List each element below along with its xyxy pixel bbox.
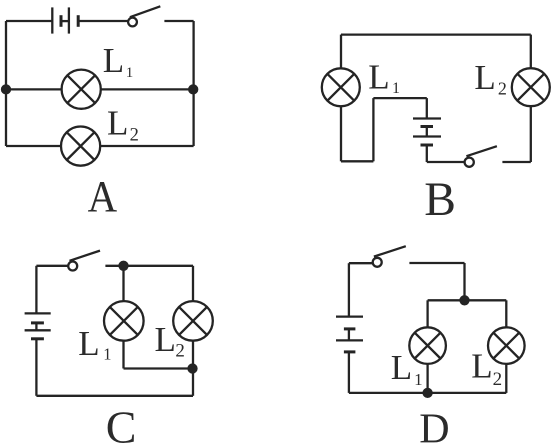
svg-text:L: L — [155, 320, 176, 359]
wire D: top-left to switch — [349, 262, 373, 264]
lamp L2 (C) — [173, 301, 213, 341]
svg-text:1: 1 — [103, 345, 111, 364]
svg-text:L: L — [78, 324, 99, 363]
wire B: top horizontal — [341, 33, 531, 35]
wire C: bottom horizontal — [36, 395, 193, 397]
wire D: L2 lead down — [505, 300, 507, 327]
wire D: L1 lead down — [426, 300, 428, 327]
wire B: left vertical lower from L1 — [340, 106, 342, 161]
switch (B): pivot circle and open arm — [465, 146, 497, 167]
svg-text:2: 2 — [175, 340, 185, 361]
svg-text:L: L — [103, 41, 124, 80]
wire B: bottom-left short horizontal — [341, 160, 373, 162]
svg-text:L: L — [474, 58, 495, 97]
wire C: right vertical lower — [192, 341, 194, 396]
lamp L1 (A) — [62, 70, 101, 109]
svg-text:1: 1 — [414, 370, 423, 389]
wire D: switch to top-right corner — [409, 262, 464, 264]
svg-text:L: L — [107, 103, 128, 142]
wire A: right vertical — [192, 21, 194, 146]
wire C: top-left to switch — [36, 265, 68, 267]
wire C: switch to top-right corner — [105, 265, 193, 267]
wire A: switch to top-right corner — [164, 20, 193, 22]
battery (C), two cells vertical — [25, 313, 51, 338]
wire C: right vertical upper — [192, 266, 194, 301]
junction node D-bottom — [424, 389, 432, 397]
wire C: L1 branch vertical lower — [122, 341, 124, 369]
wire A: middle branch left of L1 — [6, 88, 62, 90]
wire D: bottom horizontal — [349, 392, 506, 394]
svg-text:A: A — [88, 172, 118, 221]
wire B: inner horizontal to battery — [373, 97, 426, 99]
svg-text:1: 1 — [392, 80, 400, 97]
wire A: bottom branch right of L2 — [100, 145, 194, 147]
svg-text:2: 2 — [498, 78, 507, 98]
lamp L1 (B) — [322, 68, 360, 106]
wire D: left vertical upper (battery top lead) — [348, 263, 350, 316]
svg-text:B: B — [424, 174, 456, 226]
wire A: battery to switch — [78, 20, 128, 22]
wire C: left vertical upper (battery top lead) — [35, 266, 37, 314]
svg-text:1: 1 — [126, 65, 134, 81]
wire D: right vertical upper to branch node — [463, 263, 465, 300]
wire C: left vertical lower (battery bottom lead) — [35, 339, 37, 396]
svg-text:D: D — [419, 407, 449, 443]
lamp L1 (C) — [104, 301, 144, 341]
wire C: L1 bottom horizontal to node — [124, 367, 193, 369]
switch (D): pivot circle and open arm — [373, 246, 406, 267]
wire B: inner vertical up — [372, 98, 374, 161]
wire B: battery bottom lead — [426, 145, 428, 162]
junction node A-right — [189, 85, 197, 93]
lamp L1 (D) — [409, 327, 446, 364]
wire A: top-left segment to battery — [6, 20, 52, 22]
wire B: right vertical lower — [530, 106, 532, 162]
lamp L2 (B) — [512, 68, 550, 106]
wire A: left vertical — [5, 21, 7, 146]
junction node D-top — [461, 296, 469, 304]
wire B: battery top lead — [426, 98, 428, 118]
svg-text:L: L — [391, 348, 412, 387]
wire D: L2 lower lead — [505, 364, 507, 393]
wire D: L1 lower lead — [426, 364, 428, 393]
lamp L2 (A) — [61, 127, 100, 166]
wire A: bottom branch left of L2 — [6, 145, 61, 147]
wire D: left vertical lower (battery bottom lead) — [348, 352, 350, 393]
battery (A), two cells horizontal — [52, 7, 78, 33]
junction node C-bottom-right — [189, 365, 197, 373]
svg-text:L: L — [368, 57, 389, 96]
wire C: L1 branch vertical upper — [122, 266, 124, 301]
battery (D), two cells vertical — [336, 317, 363, 352]
switch (C): pivot circle and open arm — [68, 251, 100, 271]
svg-text:2: 2 — [493, 369, 503, 390]
svg-text:C: C — [106, 402, 137, 443]
switch (A): pivot circle and open arm — [128, 6, 160, 26]
junction node A-left — [2, 85, 10, 93]
svg-text:L: L — [471, 347, 492, 386]
battery (B), two cells vertical — [413, 119, 441, 146]
wire A: middle branch right of L1 — [101, 88, 194, 90]
wire B: left vertical upper into L1 — [340, 35, 342, 69]
wire B: right vertical upper — [530, 35, 532, 69]
wire B: switch to bottom-right corner — [502, 161, 530, 163]
wire D: branch horizontal — [428, 299, 507, 301]
svg-text:2: 2 — [130, 125, 139, 145]
lamp L2 (D) — [488, 327, 525, 364]
wire B: bottom horizontal to switch — [427, 161, 465, 163]
junction node C-top — [120, 262, 128, 270]
